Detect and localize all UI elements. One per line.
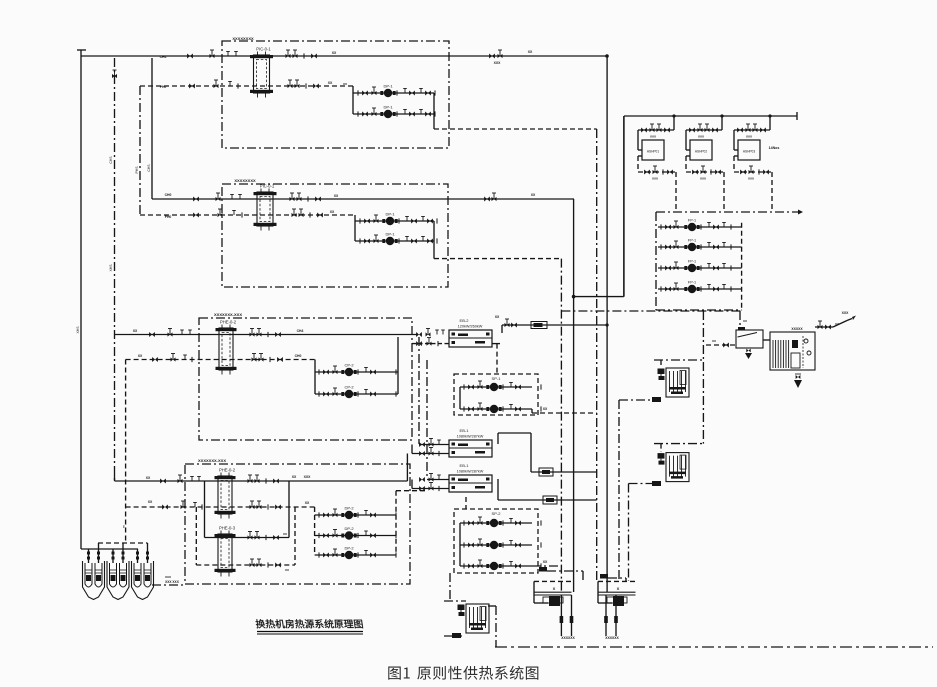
svg-text:XX: XX	[138, 354, 143, 358]
svg-text:XX: XX	[285, 568, 289, 572]
svg-text:CH0: CH0	[165, 193, 172, 197]
svg-text:XXX: XXX	[698, 135, 704, 139]
svg-text:120kW/260kW: 120kW/260kW	[458, 325, 483, 329]
svg-text:XX: XX	[712, 339, 716, 343]
svg-text:FP-1: FP-1	[688, 219, 696, 223]
svg-text:XXX: XXX	[650, 135, 656, 139]
svg-text:XX: XX	[146, 476, 151, 480]
svg-text:XHS: XHS	[76, 326, 80, 334]
svg-text:EB-2: EB-2	[460, 318, 470, 323]
svg-text:XX: XX	[332, 51, 337, 55]
svg-text:CH4: CH4	[297, 329, 304, 333]
svg-text:XXX XXX: XXX XXX	[165, 580, 180, 584]
svg-text:X: X	[553, 586, 556, 591]
svg-text:XXX: XXX	[700, 177, 706, 181]
svg-text:XXX: XXX	[842, 311, 850, 315]
svg-text:XXXXXXXX: XXXXXXXX	[232, 36, 254, 41]
svg-text:XX: XX	[328, 81, 333, 85]
svg-text:SP-2: SP-2	[492, 511, 502, 516]
svg-text:X: X	[617, 586, 620, 591]
svg-text:XX: XX	[133, 329, 138, 333]
svg-text:PHE-0-2: PHE-0-2	[219, 468, 236, 473]
svg-text:FP-1: FP-1	[688, 260, 696, 264]
svg-text:XX: XX	[528, 50, 533, 54]
svg-text:XXX: XXX	[165, 575, 171, 579]
svg-text:XXX: XXX	[746, 135, 752, 139]
svg-text:XX: XX	[330, 210, 335, 214]
svg-text:XXXXXXXX: XXXXXXXX	[234, 178, 256, 183]
svg-text:DP-1: DP-1	[385, 212, 395, 217]
svg-text:FP-1: FP-1	[688, 239, 696, 243]
svg-text:CHS: CHS	[109, 156, 113, 164]
svg-text:DP-2: DP-2	[344, 526, 354, 531]
svg-text:EB-1: EB-1	[460, 463, 470, 468]
svg-text:PH0: PH0	[165, 215, 172, 219]
svg-text:XXX: XXX	[652, 177, 658, 181]
svg-text:SP-1: SP-1	[492, 376, 502, 381]
svg-text:XHS: XHS	[109, 264, 113, 272]
svg-text:PHE-0-3: PHE-0-3	[219, 526, 236, 531]
svg-text:DP-1: DP-1	[383, 84, 393, 89]
svg-text:CH4: CH4	[160, 55, 167, 59]
svg-text:XX: XX	[543, 560, 548, 564]
svg-text:XX: XX	[743, 319, 747, 323]
svg-text:PHE-0-2: PHE-0-2	[220, 320, 237, 325]
svg-text:DP-2: DP-2	[344, 506, 354, 511]
svg-text:XX: XX	[334, 194, 339, 198]
svg-text:1080kW/287kW: 1080kW/287kW	[457, 435, 484, 439]
svg-text:DP-2: DP-2	[344, 546, 354, 551]
svg-text:XXXXX: XXXXX	[791, 327, 803, 331]
svg-text:14Nos: 14Nos	[769, 146, 780, 150]
svg-text:EB-1: EB-1	[460, 428, 470, 433]
svg-text:XX: XX	[305, 501, 310, 505]
svg-text:1080kW/287kW: 1080kW/287kW	[457, 470, 484, 474]
svg-text:PH0: PH0	[160, 85, 167, 89]
svg-text:PIC-0-1: PIC-0-1	[260, 184, 275, 189]
svg-text:XXX: XXX	[795, 372, 801, 376]
svg-text:ASHP01: ASHP01	[647, 150, 659, 154]
svg-text:FP-1: FP-1	[688, 281, 696, 285]
svg-text:XX: XX	[835, 322, 839, 326]
svg-text:PIC-0-1: PIC-0-1	[256, 47, 271, 52]
svg-text:XX: XX	[283, 532, 287, 536]
svg-text:XX: XX	[148, 500, 153, 504]
svg-text:XX: XX	[543, 407, 548, 411]
svg-text:ASHP03: ASHP03	[743, 150, 755, 154]
svg-text:CP-2: CP-2	[344, 385, 354, 390]
svg-text:XXX: XXX	[748, 177, 754, 181]
svg-text:XXXXXX: XXXXXX	[605, 636, 619, 640]
svg-text:XXXXXXX-XXX: XXXXXXX-XXX	[198, 458, 226, 463]
svg-text:XX: XX	[495, 315, 500, 319]
svg-text:CH0: CH0	[295, 354, 302, 358]
svg-text:XXXXXXX-XXX: XXXXXXX-XXX	[214, 312, 242, 317]
svg-text:XXXXXX: XXXXXX	[561, 636, 575, 640]
svg-text:XX: XX	[531, 193, 536, 197]
svg-text:CP-2: CP-2	[344, 363, 354, 368]
svg-text:XX: XX	[292, 475, 297, 479]
svg-text:CHS: CHS	[147, 164, 151, 172]
svg-text:PHS: PHS	[135, 166, 139, 174]
svg-text:XX: XX	[343, 82, 347, 86]
svg-text:DP-1: DP-1	[383, 105, 393, 110]
svg-text:XXX: XXX	[494, 61, 502, 65]
svg-text:ASHP02: ASHP02	[695, 150, 707, 154]
svg-text:DP-1: DP-1	[385, 232, 395, 237]
svg-text:XXX: XXX	[304, 475, 312, 479]
